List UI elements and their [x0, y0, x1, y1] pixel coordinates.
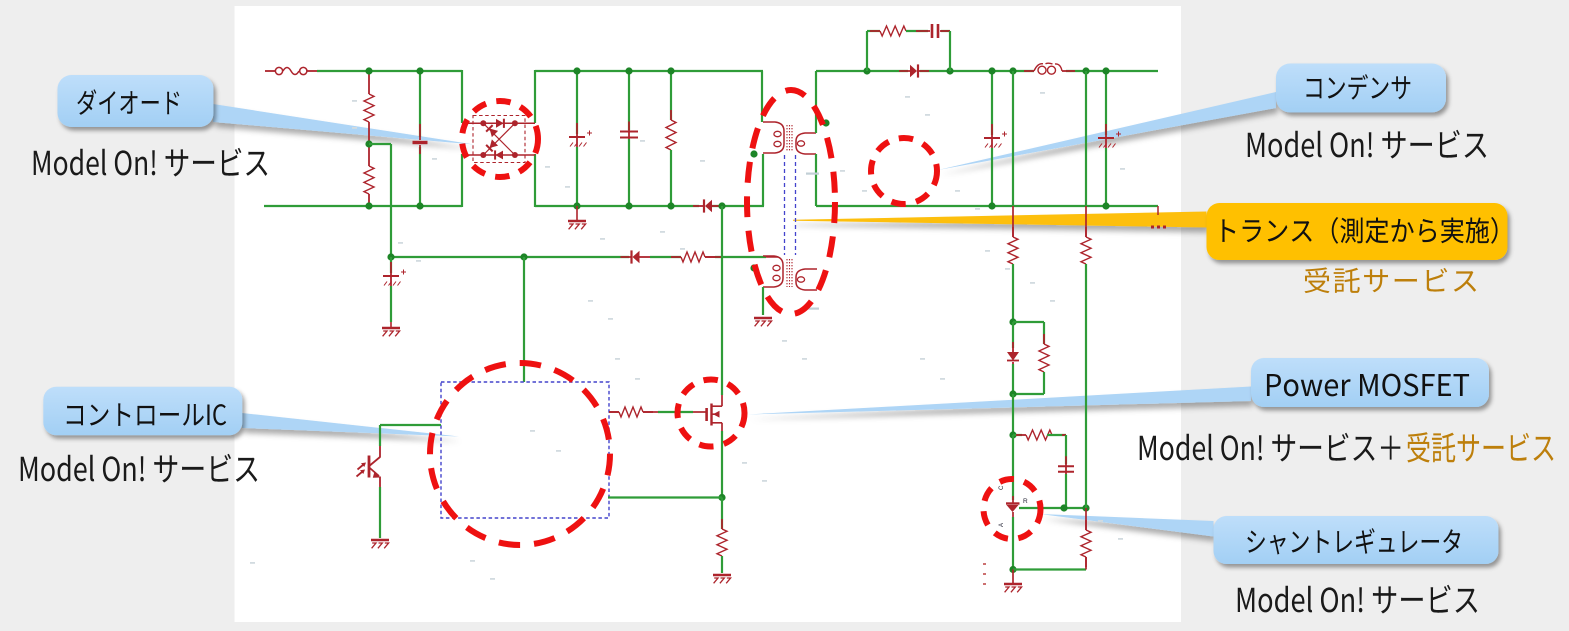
svg-text:A: A: [999, 523, 1005, 527]
svg-text:R: R: [1023, 498, 1028, 505]
svg-text:C: C: [999, 485, 1005, 490]
